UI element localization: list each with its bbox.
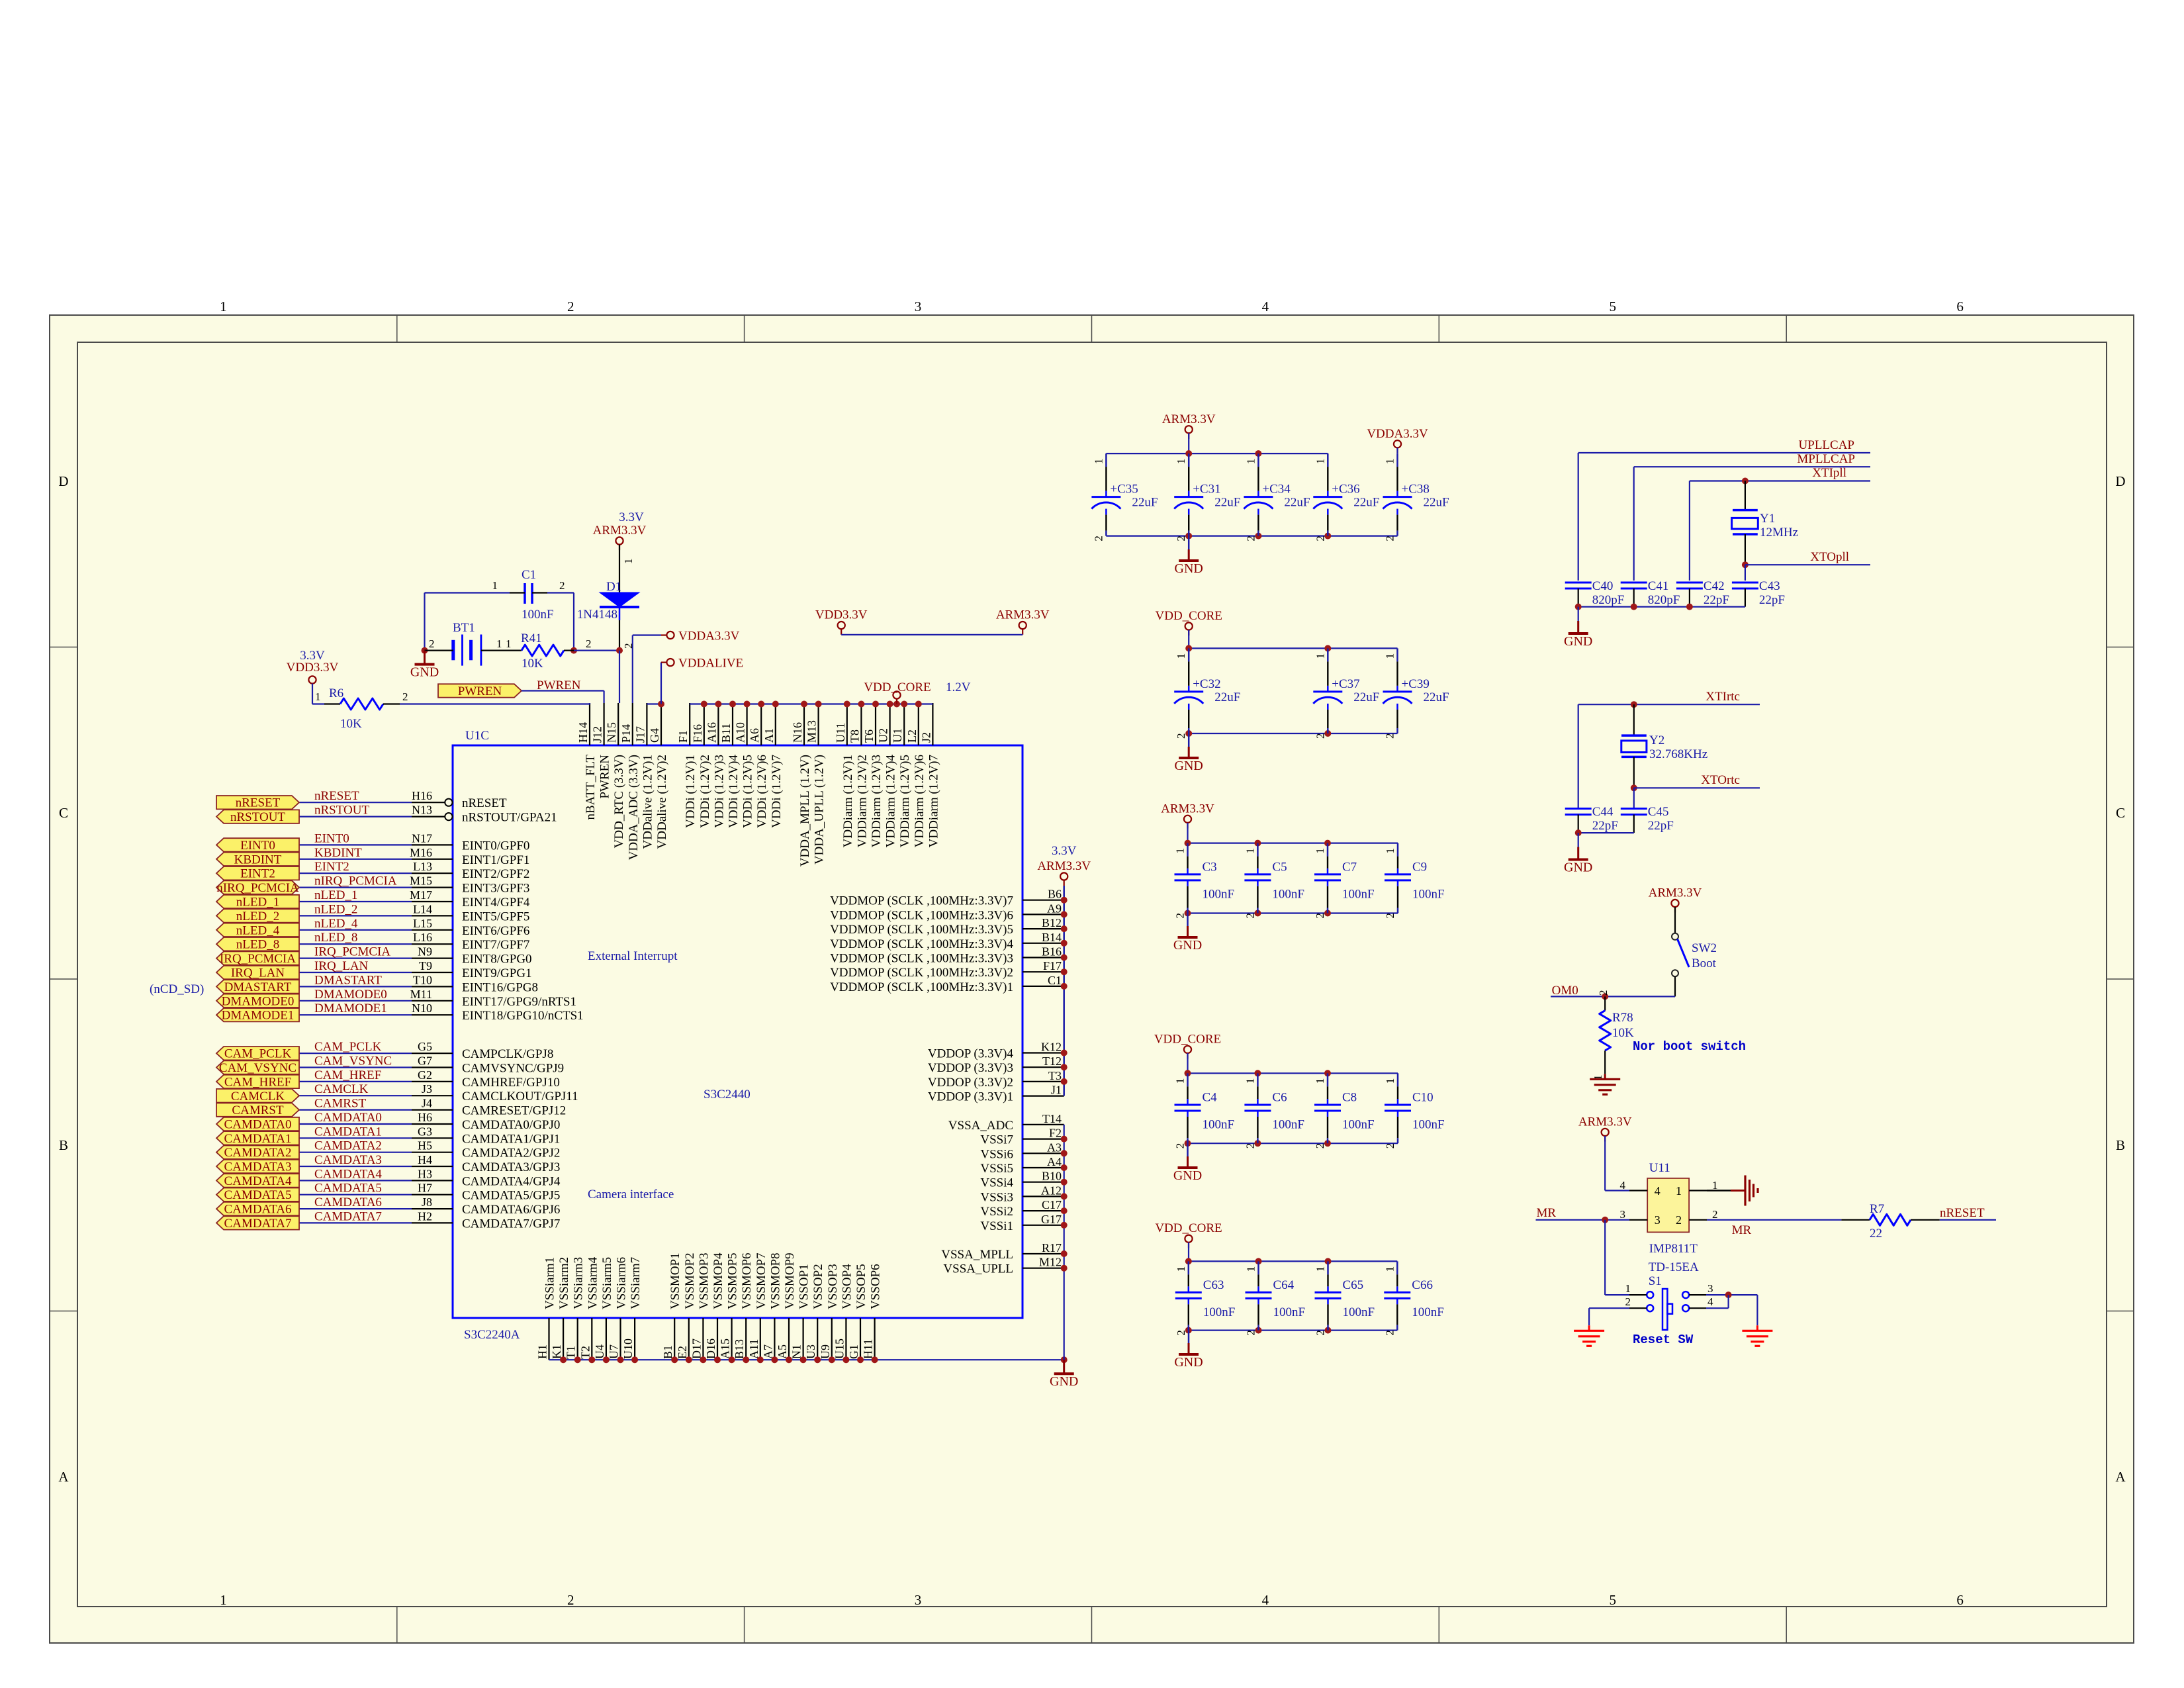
svg-text:J8: J8 (422, 1196, 432, 1209)
svg-text:A6: A6 (748, 728, 761, 743)
svg-text:VDD3.3V: VDD3.3V (815, 608, 868, 622)
capacitor C3 100nF (1174, 843, 1235, 919)
svg-text:M11: M11 (410, 988, 432, 1001)
svg-text:External Interrupt: External Interrupt (588, 949, 678, 963)
svg-text:N17: N17 (412, 831, 432, 845)
IC U1C bottom pins (549, 1318, 875, 1360)
svg-text:1: 1 (1175, 653, 1187, 659)
ground red (S1 right) (1742, 1325, 1772, 1346)
capacitor C31 22uF (1174, 453, 1240, 541)
svg-text:H6: H6 (418, 1111, 432, 1124)
svg-text:100nF: 100nF (1203, 1305, 1236, 1319)
svg-text:1.2V: 1.2V (946, 680, 971, 694)
svg-text:MPLLCAP: MPLLCAP (1797, 452, 1855, 466)
svg-text:P14: P14 (619, 724, 633, 743)
svg-text:VSSiarm4: VSSiarm4 (586, 1256, 600, 1309)
svg-text:EINT1/GPF1: EINT1/GPF1 (462, 853, 529, 867)
svg-text:BT1: BT1 (453, 621, 475, 635)
svg-text:H16: H16 (412, 789, 432, 802)
wire VDDA_ADC net (P14) (633, 635, 661, 704)
svg-text:2: 2 (402, 690, 408, 703)
svg-text:VDD_CORE: VDD_CORE (1155, 1221, 1222, 1235)
svg-text:VDDA3.3V: VDDA3.3V (678, 630, 740, 643)
node (nCD_SD) (150, 982, 204, 996)
svg-text:H1: H1 (536, 1344, 549, 1359)
svg-text:1: 1 (220, 299, 227, 314)
svg-text:IRQ_PCMCIA: IRQ_PCMCIA (220, 952, 296, 966)
pin numbers (right) (1039, 888, 1062, 1269)
svg-text:ARM3.3V: ARM3.3V (1161, 802, 1214, 816)
svg-text:nRSTOUT/GPA21: nRSTOUT/GPA21 (462, 811, 557, 825)
wire bank4 bottom rail (1185, 1140, 1398, 1147)
svg-text:+C37: +C37 (1332, 677, 1359, 691)
port CAMDATA7 (216, 1216, 299, 1231)
svg-text:C43: C43 (1759, 579, 1780, 593)
svg-text:F16: F16 (691, 724, 704, 743)
wire ARM3.3V to D1 (619, 545, 635, 592)
svg-text:CAMRESET/GPJ12: CAMRESET/GPJ12 (462, 1104, 566, 1118)
svg-text:H14: H14 (576, 722, 590, 743)
svg-text:N1: N1 (790, 1344, 803, 1359)
svg-text:H4: H4 (418, 1153, 432, 1166)
svg-text:B: B (2116, 1137, 2125, 1153)
svg-text:B10: B10 (1042, 1170, 1062, 1183)
svg-text:3: 3 (1707, 1282, 1713, 1295)
wire nRESET net (right) (1940, 1206, 1996, 1220)
svg-text:VDDMOP (SCLK ,100MHz:3.3V)7: VDDMOP (SCLK ,100MHz:3.3V)7 (830, 894, 1013, 908)
svg-text:T8: T8 (848, 729, 861, 743)
wire bank3 bottom rail (1185, 910, 1398, 917)
port CAMDATA1 (216, 1131, 299, 1146)
switch S1 TD-15EA Reset (1625, 1260, 1714, 1330)
power flag ARM3.3V (U11) (1578, 1115, 1632, 1141)
wire bank5 bottom rail (1185, 1327, 1398, 1334)
svg-text:S3C2440: S3C2440 (704, 1088, 751, 1102)
svg-text:K12: K12 (1041, 1041, 1062, 1054)
svg-text:100nF: 100nF (1342, 1118, 1375, 1132)
svg-text:2: 2 (1175, 733, 1187, 739)
switch SW2 Boot (1672, 907, 1717, 996)
port nIRQ_PCMCIA (216, 880, 299, 895)
svg-text:B14: B14 (1042, 931, 1062, 944)
svg-text:C42: C42 (1704, 579, 1725, 593)
svg-text:1: 1 (1384, 1078, 1396, 1084)
svg-text:A16: A16 (705, 722, 718, 743)
svg-text:VSSMOP5: VSSMOP5 (726, 1252, 740, 1309)
pin names (left) (462, 796, 584, 1231)
svg-text:12MHz: 12MHz (1760, 526, 1798, 539)
svg-text:N13: N13 (412, 804, 432, 817)
pin numbers (bottom) (536, 1338, 875, 1359)
ground earth (U11 pin1) (1707, 1176, 1758, 1206)
svg-text:U15: U15 (833, 1338, 846, 1359)
svg-text:22uF: 22uF (1424, 690, 1449, 704)
svg-text:C41: C41 (1648, 579, 1669, 593)
svg-text:A15: A15 (719, 1338, 732, 1359)
svg-text:IRQ_LAN: IRQ_LAN (231, 966, 285, 980)
port IRQ_LAN (216, 966, 299, 980)
svg-text:1: 1 (1244, 848, 1256, 854)
svg-text:2: 2 (1175, 536, 1187, 541)
svg-text:H11: H11 (862, 1339, 875, 1359)
svg-text:H5: H5 (418, 1139, 432, 1152)
svg-text:2: 2 (1244, 536, 1257, 541)
svg-text:J2: J2 (919, 732, 933, 743)
svg-text:M13: M13 (805, 720, 819, 743)
svg-text:J4: J4 (422, 1097, 432, 1110)
svg-text:R78: R78 (1612, 1011, 1633, 1025)
svg-text:B16: B16 (1042, 945, 1062, 959)
svg-text:22: 22 (1870, 1227, 1882, 1241)
svg-text:22uF: 22uF (1424, 496, 1449, 510)
svg-text:T6: T6 (862, 729, 876, 743)
wire OM0 net (1551, 984, 1675, 1000)
svg-text:nIRQ_PCMCIA: nIRQ_PCMCIA (216, 881, 299, 895)
power flag ARM3.3V (bank1) (1162, 412, 1216, 453)
svg-text:Y1: Y1 (1760, 512, 1775, 526)
wire bank1 bottom rail (1106, 533, 1397, 539)
svg-text:CAM_PCLK: CAM_PCLK (224, 1047, 292, 1061)
svg-text:(nCD_SD): (nCD_SD) (150, 982, 204, 996)
capacitor C6 100nF (1244, 1073, 1304, 1149)
resistor R6 10K (312, 684, 408, 731)
svg-text:VSSMOP9: VSSMOP9 (783, 1252, 797, 1309)
svg-text:nBATT_FLT: nBATT_FLT (584, 755, 598, 820)
svg-text:VSSiarm1: VSSiarm1 (543, 1257, 557, 1309)
svg-text:4: 4 (1707, 1295, 1713, 1308)
IC U1C S3C2440 body (453, 729, 1023, 1342)
svg-text:A1: A1 (762, 728, 776, 743)
svg-text:VDDMOP (SCLK ,100MHz:3.3V)2: VDDMOP (SCLK ,100MHz:3.3V)2 (830, 966, 1013, 980)
resistor R78 10K (1592, 996, 1634, 1080)
svg-text:VDDOP (3.3V)1: VDDOP (3.3V)1 (928, 1090, 1013, 1104)
svg-text:3.3V: 3.3V (1052, 844, 1077, 858)
svg-text:22uF: 22uF (1353, 496, 1379, 510)
svg-text:1: 1 (1175, 459, 1187, 465)
svg-text:2: 2 (1245, 1330, 1257, 1336)
svg-text:CAMDATA0/GPJ0: CAMDATA0/GPJ0 (462, 1118, 560, 1132)
svg-text:100nF: 100nF (1412, 887, 1445, 901)
svg-text:C6: C6 (1272, 1091, 1287, 1105)
svg-text:820pF: 820pF (1648, 593, 1680, 607)
svg-text:2: 2 (1384, 913, 1396, 919)
svg-text:VSSi6: VSSi6 (980, 1147, 1013, 1161)
svg-text:VSSOP5: VSSOP5 (854, 1264, 868, 1309)
wire PLL caps bottom rail (1575, 604, 1745, 610)
svg-text:N9: N9 (418, 945, 432, 959)
svg-text:B11: B11 (719, 724, 733, 743)
capacitor C4 100nF (1174, 1073, 1235, 1149)
svg-text:ARM3.3V: ARM3.3V (1037, 859, 1091, 873)
svg-text:CAMDATA5/GPJ5: CAMDATA5/GPJ5 (462, 1189, 560, 1203)
svg-text:32.768KHz: 32.768KHz (1649, 747, 1707, 761)
power flag VDD_CORE (bank5) (1155, 1221, 1222, 1261)
svg-text:CAMDATA7: CAMDATA7 (224, 1217, 292, 1231)
svg-text:EINT4/GPF4: EINT4/GPF4 (462, 896, 530, 910)
svg-text:CAMDATA3/GPJ3: CAMDATA3/GPJ3 (462, 1160, 560, 1174)
svg-text:IMP811T: IMP811T (1649, 1242, 1698, 1256)
svg-text:CAMDATA4: CAMDATA4 (224, 1174, 292, 1188)
svg-text:VDDA_MPLL (1.2V): VDDA_MPLL (1.2V) (798, 755, 812, 867)
svg-text:VDDiarm (1.2V)3: VDDiarm (1.2V)3 (870, 755, 884, 847)
svg-text:1: 1 (220, 1592, 227, 1608)
svg-text:1: 1 (1384, 653, 1396, 659)
svg-text:22uF: 22uF (1132, 496, 1158, 510)
svg-text:CAM_PCLK: CAM_PCLK (314, 1040, 382, 1054)
svg-text:VDD3.3V: VDD3.3V (287, 661, 339, 675)
svg-text:1: 1 (1314, 1078, 1326, 1084)
svg-text:1: 1 (1383, 1266, 1396, 1272)
wire bank2 top rail (1185, 645, 1397, 651)
svg-text:EINT7/GPF7: EINT7/GPF7 (462, 938, 529, 952)
svg-text:ARM3.3V: ARM3.3V (1649, 886, 1702, 900)
ground GND (PLL caps) (1564, 607, 1592, 649)
ground GND (bank2) (1175, 733, 1203, 773)
svg-text:CAMDATA3: CAMDATA3 (224, 1160, 292, 1174)
svg-text:C65: C65 (1343, 1278, 1364, 1292)
svg-text:G17: G17 (1041, 1213, 1062, 1226)
power flag VDD_CORE 1.2V (top) (864, 680, 970, 704)
svg-text:T12: T12 (1042, 1055, 1062, 1068)
svg-text:VSSi2: VSSi2 (980, 1205, 1013, 1219)
wire MR to S1 pin1 (1605, 1220, 1647, 1295)
svg-text:U4: U4 (593, 1344, 606, 1359)
wire ARM3.3V to VDDMOP/VDDOP pins (1061, 886, 1068, 1096)
svg-text:2: 2 (1384, 536, 1396, 541)
svg-text:KBDINT: KBDINT (314, 846, 362, 860)
svg-text:CAMDATA1: CAMDATA1 (224, 1132, 292, 1146)
svg-text:L15: L15 (413, 917, 432, 930)
svg-text:ARM3.3V: ARM3.3V (996, 608, 1050, 622)
svg-text:KBDINT: KBDINT (234, 853, 282, 867)
svg-text:nIRQ_PCMCIA: nIRQ_PCMCIA (314, 874, 397, 888)
svg-text:CAMDATA0: CAMDATA0 (314, 1111, 382, 1125)
ground GND (battery) (410, 651, 439, 680)
wire left pin nets (299, 802, 412, 1223)
port EINT0 (216, 838, 299, 853)
wire bank5 top rail (1185, 1258, 1398, 1264)
svg-text:1: 1 (315, 690, 321, 703)
svg-text:N16: N16 (791, 722, 804, 743)
svg-text:3: 3 (1655, 1213, 1661, 1227)
svg-text:2: 2 (1314, 1143, 1326, 1149)
svg-text:VSSi5: VSSi5 (980, 1162, 1013, 1176)
svg-text:EINT3/GPF3: EINT3/GPF3 (462, 882, 529, 896)
svg-text:U1C: U1C (465, 729, 489, 743)
capacitor C32 22uF (1174, 648, 1240, 739)
port CAMRST (216, 1103, 299, 1117)
capacitor C35 22uF (1091, 453, 1158, 541)
svg-text:1: 1 (1625, 1282, 1631, 1295)
svg-text:C3: C3 (1203, 860, 1217, 874)
svg-text:3: 3 (1620, 1208, 1626, 1221)
svg-text:VDDA_ADC (3.3V): VDDA_ADC (3.3V) (627, 755, 641, 860)
svg-text:M12: M12 (1039, 1256, 1062, 1269)
ground GND (bank4) (1173, 1143, 1202, 1183)
svg-text:S3C2240A: S3C2240A (464, 1328, 520, 1342)
capacitor C8 100nF (1314, 1073, 1375, 1149)
wire ARM3.3V to U11 pin4 (1605, 1136, 1629, 1191)
svg-text:GND: GND (1173, 938, 1202, 953)
svg-text:C66: C66 (1412, 1278, 1433, 1292)
svg-text:SW2: SW2 (1692, 941, 1717, 955)
svg-text:R17: R17 (1042, 1241, 1062, 1254)
svg-text:ARM3.3V: ARM3.3V (593, 524, 647, 538)
svg-text:100nF: 100nF (1412, 1118, 1445, 1132)
svg-text:2: 2 (1314, 733, 1326, 739)
svg-text:D: D (58, 473, 68, 489)
port IRQ_PCMCIA (216, 951, 299, 966)
svg-text:C8: C8 (1342, 1091, 1357, 1105)
svg-text:VSSMOP1: VSSMOP1 (668, 1252, 682, 1309)
port CAMDATA2 (216, 1146, 299, 1160)
svg-text:VDDalive (1.2V)2: VDDalive (1.2V)2 (655, 755, 669, 849)
svg-text:VDDi (1.2V)3: VDDi (1.2V)3 (712, 755, 726, 828)
svg-text:B12: B12 (1042, 916, 1062, 929)
svg-text:VDDALIVE: VDDALIVE (678, 657, 743, 671)
capacitor C43 22pF (1732, 579, 1785, 607)
diode D1 1N4148 (577, 580, 639, 651)
power flag ARM3.3V (bank3) (1161, 802, 1214, 843)
IC U1C left pins (412, 799, 453, 1223)
wire R41 to D1 (574, 647, 623, 703)
svg-text:Y2: Y2 (1649, 733, 1664, 747)
svg-text:Boot: Boot (1692, 957, 1717, 970)
svg-text:M15: M15 (410, 874, 432, 888)
svg-text:J3: J3 (422, 1082, 432, 1096)
svg-text:1: 1 (1314, 459, 1326, 465)
svg-text:22pF: 22pF (1759, 593, 1785, 607)
port CAM_VSYNC (216, 1060, 299, 1075)
svg-text:G2: G2 (418, 1068, 432, 1082)
svg-text:VDDA3.3V: VDDA3.3V (1367, 427, 1428, 441)
text Nor boot switch (1633, 1039, 1746, 1054)
svg-text:DMASTART: DMASTART (224, 980, 292, 994)
svg-text:100nF: 100nF (1412, 1305, 1444, 1319)
svg-text:B1: B1 (661, 1345, 674, 1359)
svg-text:PWREN: PWREN (598, 755, 612, 799)
svg-text:N15: N15 (605, 722, 618, 743)
wire GND bus under IC (549, 1356, 1068, 1363)
svg-text:EINT0: EINT0 (240, 839, 275, 853)
wire C1 loop (422, 593, 578, 654)
port CAM_HREF (216, 1075, 299, 1090)
power flag ARM3.3V (SW2) (1649, 886, 1702, 913)
capacitor C37 22uF (1313, 648, 1379, 739)
wire MR net (1536, 1206, 1752, 1237)
svg-text:VDDiarm (1.2V)2: VDDiarm (1.2V)2 (855, 755, 869, 847)
svg-text:CAMDATA2: CAMDATA2 (314, 1139, 382, 1153)
svg-text:Reset SW: Reset SW (1633, 1333, 1694, 1347)
svg-text:XTOrtc: XTOrtc (1701, 773, 1740, 787)
wire bank2 bottom rail (1185, 730, 1397, 737)
svg-text:2: 2 (429, 637, 435, 650)
svg-text:VDDOP (3.3V)3: VDDOP (3.3V)3 (928, 1061, 1013, 1075)
svg-text:T2: T2 (578, 1346, 592, 1359)
capacitor C9 100nF (1384, 843, 1445, 919)
wire VDDalive net (J17-G4) (647, 663, 664, 708)
svg-text:VSSMOP2: VSSMOP2 (683, 1252, 697, 1309)
svg-text:EINT9/GPG1: EINT9/GPG1 (462, 966, 532, 980)
wire VDDi bus (top) (690, 701, 933, 708)
svg-text:1N4148: 1N4148 (577, 608, 617, 622)
svg-text:C40: C40 (1592, 579, 1614, 593)
svg-text:ARM3.3V: ARM3.3V (1578, 1115, 1632, 1129)
svg-text:1: 1 (492, 579, 498, 592)
port nRESET (216, 796, 299, 810)
svg-text:nRESET: nRESET (462, 796, 507, 810)
svg-text:nLED_2: nLED_2 (236, 910, 279, 923)
svg-text:CAMDATA5: CAMDATA5 (224, 1188, 292, 1202)
svg-text:VDDi (1.2V)1: VDDi (1.2V)1 (684, 755, 698, 828)
svg-text:H2: H2 (418, 1209, 432, 1223)
svg-text:4: 4 (1620, 1179, 1626, 1192)
svg-text:CAMDATA6: CAMDATA6 (314, 1196, 382, 1209)
svg-text:22pF: 22pF (1704, 593, 1729, 607)
power flag ARM3.3V (above D1) (593, 510, 647, 550)
port CAMDATA0 (216, 1117, 299, 1132)
svg-text:EINT2: EINT2 (240, 867, 275, 881)
svg-text:M17: M17 (410, 888, 432, 902)
svg-text:C5: C5 (1272, 860, 1287, 874)
text Reset SW (1633, 1333, 1694, 1347)
crystal Y1 12MHz (1732, 481, 1798, 565)
ground GND (RTC caps) (1564, 833, 1592, 874)
svg-text:DMAMODE1: DMAMODE1 (222, 1009, 295, 1023)
svg-text:820pF: 820pF (1592, 593, 1625, 607)
svg-text:2: 2 (1092, 536, 1105, 541)
svg-text:10K: 10K (522, 657, 543, 671)
svg-text:VDDalive (1.2V)1: VDDalive (1.2V)1 (641, 755, 655, 849)
IC U1C right pins (1023, 900, 1064, 1268)
svg-text:VDDOP (3.3V)4: VDDOP (3.3V)4 (928, 1047, 1014, 1061)
port CAMDATA5 (216, 1188, 299, 1203)
ground GND (bank5) (1174, 1331, 1203, 1370)
svg-text:nLED_8: nLED_8 (236, 938, 279, 952)
svg-text:+C32: +C32 (1193, 677, 1220, 691)
crystal Y2 32.768KHz (1621, 704, 1707, 788)
svg-text:22pF: 22pF (1648, 819, 1674, 833)
svg-text:CAMCLK: CAMCLK (231, 1090, 285, 1103)
port DMASTART (216, 980, 299, 994)
svg-text:U7: U7 (608, 1344, 621, 1359)
svg-text:G5: G5 (418, 1040, 432, 1053)
svg-text:1: 1 (1244, 459, 1257, 465)
ground red (S1 left) (1574, 1325, 1604, 1346)
svg-text:VSSiarm6: VSSiarm6 (615, 1257, 629, 1309)
pin names (top) (584, 755, 940, 867)
svg-text:DMAMODE0: DMAMODE0 (222, 994, 295, 1008)
svg-text:C64: C64 (1273, 1278, 1295, 1292)
port nLED_8 (216, 937, 299, 952)
svg-text:CAMDATA5: CAMDATA5 (314, 1182, 382, 1196)
ground GND (bank1) (1175, 536, 1203, 576)
svg-text:D: D (2115, 473, 2125, 489)
svg-text:VDDMOP (SCLK ,100MHz:3.3V)5: VDDMOP (SCLK ,100MHz:3.3V)5 (830, 923, 1013, 937)
svg-text:C9: C9 (1412, 860, 1427, 874)
svg-text:EINT2/GPF2: EINT2/GPF2 (462, 867, 529, 881)
svg-text:CAMRST: CAMRST (314, 1097, 367, 1111)
svg-text:OM0: OM0 (1552, 984, 1578, 998)
svg-text:VDDiarm (1.2V)5: VDDiarm (1.2V)5 (898, 755, 912, 847)
svg-text:1: 1 (1384, 459, 1396, 465)
svg-text:1: 1 (1676, 1184, 1682, 1197)
svg-text:2: 2 (1175, 1330, 1187, 1336)
svg-text:VSSi7: VSSi7 (980, 1133, 1013, 1147)
svg-text:GND: GND (1175, 759, 1203, 773)
svg-text:L16: L16 (413, 931, 432, 944)
capacitor C7 100nF (1314, 843, 1375, 919)
